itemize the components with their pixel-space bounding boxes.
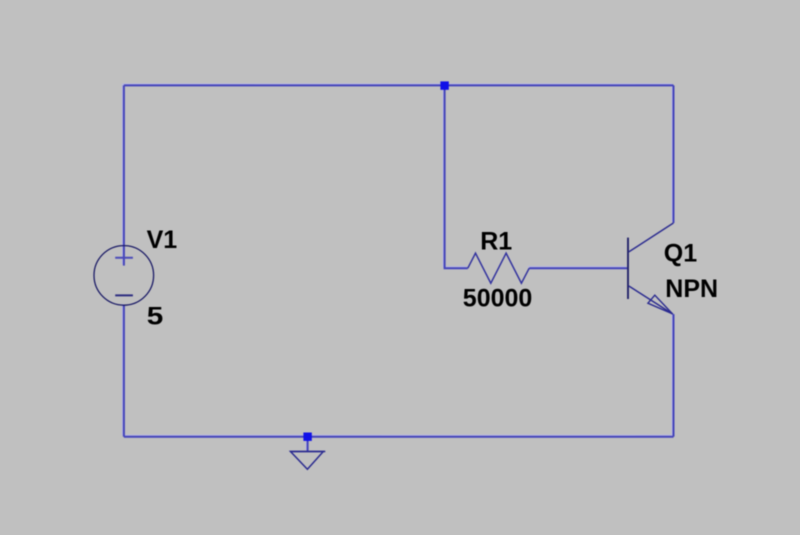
wire right upper: top rail to collector [673, 85, 675, 223]
transistor Q1 base bar [627, 238, 629, 299]
svg-text:NPN: NPN [665, 275, 718, 303]
wire left: top corner down into V1 plus stroke [123, 85, 125, 265]
resistor R1 zigzag [468, 253, 529, 283]
wire top: V1 top to collector top [124, 84, 674, 86]
junction node top [440, 81, 448, 89]
transistor Q1 emitter diagonal [629, 286, 673, 314]
wire halo underlay (downscale artifact) [122, 84, 672, 450]
svg-text:R1: R1 [480, 228, 512, 256]
junction node bottom [303, 433, 311, 441]
transistor Q1 emitter arrow [648, 295, 673, 314]
transistor Q1 collector diagonal [629, 223, 674, 252]
svg-text:5: 5 [147, 303, 164, 331]
svg-text:V1: V1 [147, 226, 178, 254]
wire right lower: emitter to bottom rail [673, 314, 675, 437]
V1 minus bar [115, 294, 133, 296]
wire: junction drop to resistor [445, 85, 468, 268]
svg-text:Q1: Q1 [664, 240, 697, 268]
V1 plus crossbar [115, 257, 133, 259]
wire left lower: V1 bottom to bottom rail [123, 305, 125, 437]
voltage source V1 circle [94, 246, 154, 306]
wire bottom rail [124, 436, 674, 438]
ground symbol [290, 451, 325, 453]
wire: resistor to base [529, 267, 627, 269]
wire: ground stub [307, 437, 309, 452]
svg-text:50000: 50000 [463, 285, 533, 313]
